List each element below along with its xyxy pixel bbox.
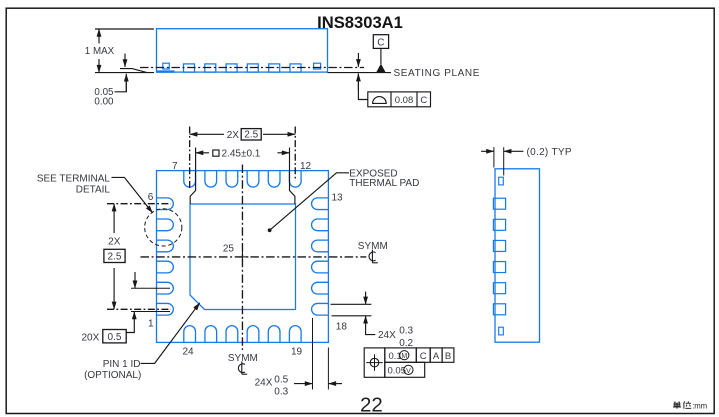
top edge terminals (pins 7-12) [184,171,301,188]
label EXPOSED THERMAL PAD [349,169,419,189]
svg-text:7: 7 [172,161,178,172]
svg-text:2.5: 2.5 [108,252,122,263]
dimension 0.05 / 0.00 [94,54,147,108]
svg-text:0.5: 0.5 [274,374,288,385]
svg-text:PIN 1 ID: PIN 1 ID [103,359,141,370]
svg-text::mm: :mm [692,401,707,410]
center cross [237,251,249,263]
side view (right) terminals [493,177,505,335]
svg-text:C: C [420,95,427,106]
svg-text:24X: 24X [255,378,273,389]
position feature control frame [364,348,454,377]
label SEE TERMINAL DETAIL [37,173,111,195]
svg-text:0.00: 0.00 [94,97,114,108]
svg-text:1 MAX: 1 MAX [85,46,115,57]
dimension 20X 0.5 (pin pitch) [82,272,171,344]
pin 7 centerline extension [189,127,191,191]
dimension 2X 2.5 (top) [190,129,296,142]
seating plane gap arrows [358,53,367,100]
svg-text:(0.2) TYP: (0.2) TYP [527,147,572,158]
dimension 24X 0.5/0.3 (terminal length, bottom) [255,318,342,397]
side view package body [157,29,328,72]
feature control frame 0.08 C [368,92,431,107]
side view (right) package body [495,169,540,342]
pin number labels [148,161,348,358]
svg-text:C: C [377,38,384,49]
svg-text:0.08: 0.08 [395,95,414,106]
seating plane datum triangle [376,64,385,73]
left edge terminals (pins 1-6) [157,198,174,315]
svg-text:19: 19 [291,347,303,358]
svg-text:B: B [445,351,451,362]
right edge terminals (pins 13-18) [312,198,329,315]
svg-text:2X: 2X [227,130,240,141]
side view centerline [140,67,364,69]
svg-text:SEE TERMINAL: SEE TERMINAL [37,173,111,184]
side view base edge thick segment [157,70,175,72]
unit note (mm) [673,401,707,410]
leader exposed thermal pad [268,173,349,232]
svg-text:SEATING PLANE: SEATING PLANE [394,68,481,79]
pin 12 centerline extension [294,127,296,182]
svg-text:1: 1 [148,319,154,330]
pin 6 centerline extension [107,203,171,205]
svg-text:INS8303A1: INS8303A1 [317,13,403,32]
label SYMM bottom [228,353,258,374]
horizontal symmetry centerline [141,256,367,258]
svg-text:25: 25 [223,243,235,254]
dimension 1 MAX [85,29,154,73]
svg-text:0.5: 0.5 [108,332,122,343]
svg-text:0.2: 0.2 [399,338,413,349]
svg-text:13: 13 [332,192,344,203]
svg-text:THERMAL PAD: THERMAL PAD [349,178,419,189]
pad extension line left [190,148,195,205]
dimension 2X 2.5 (left) [104,204,125,310]
dimension 24X 0.3/0.2 (terminal width) [331,292,414,349]
side view terminals [163,63,321,72]
pin 1 centerline extension [107,308,171,310]
leader see terminal detail [112,177,153,213]
svg-text:0.3: 0.3 [399,326,413,337]
svg-text:(OPTIONAL): (OPTIONAL) [84,370,141,381]
svg-text:12: 12 [300,161,312,172]
pad extension line right [290,148,295,205]
svg-text:6: 6 [148,192,154,203]
svg-text:22: 22 [360,393,383,416]
label SYMM right [358,241,388,263]
svg-text:18: 18 [336,321,348,332]
svg-text:C: C [420,351,427,362]
svg-text:M: M [401,353,407,360]
exposed thermal pad outline [190,204,296,310]
leader pin 1 id [141,303,200,364]
svg-text:A: A [433,351,440,362]
terminal detail circle [145,209,182,246]
label PIN 1 ID (OPTIONAL) [84,359,141,381]
svg-text:SYMM: SYMM [228,353,258,364]
svg-text:24X: 24X [378,330,396,341]
vertical symmetry centerline [241,165,243,351]
svg-text:0.05: 0.05 [388,365,407,376]
svg-text:2.45±0.1: 2.45±0.1 [222,149,261,160]
svg-text:0.3: 0.3 [274,386,288,397]
svg-text:V: V [406,368,411,375]
datum C box [373,35,388,64]
dimension (0.2) TYP [481,147,572,176]
svg-text:DETAIL: DETAIL [76,185,111,196]
svg-text:24: 24 [182,347,194,358]
bottom edge terminals (pins 19-24) [184,326,301,343]
package outline top view [157,171,329,343]
dimension 2.45 +/-0.1 (pad) [196,149,290,160]
svg-text:20X: 20X [82,333,100,344]
seating plane line [328,72,392,74]
svg-text:2.5: 2.5 [244,130,258,141]
svg-text:2X: 2X [108,237,121,248]
